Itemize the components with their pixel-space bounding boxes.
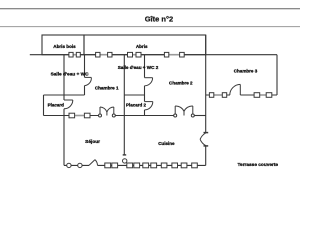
left long wall — [63, 55, 65, 100]
chambre3 bottom wall — [206, 94, 230, 96]
window W3 (bottom wall) — [143, 163, 149, 168]
svg-text:Salle d'eau + WC: Salle d'eau + WC — [51, 71, 90, 77]
header rule top — [0, 8, 300, 10]
svg-text:Séjour: Séjour — [85, 139, 100, 145]
wall placard1 top / salle d'eau bottom — [44, 94, 85, 96]
windows: top wall — [69, 52, 184, 57]
header rule bottom — [0, 26, 300, 28]
window mid wall — [69, 113, 90, 118]
windows chambre3 bottom wall — [209, 93, 271, 98]
window W4 (bottom wall) — [161, 163, 167, 168]
svg-text:Placard 2: Placard 2 — [126, 103, 147, 108]
svg-text:Chambre 2: Chambre 2 — [169, 80, 193, 85]
window A (top wall) — [73, 54, 76, 56]
window W5 (bottom wall) — [181, 163, 187, 168]
svg-text:Placard: Placard — [48, 103, 65, 108]
door chambre1 — [85, 77, 92, 85]
divider door circle — [123, 159, 127, 163]
chambre3 right wall — [276, 55, 278, 95]
double door 2 (cuisine-chambre2) — [174, 106, 195, 117]
abris bois box — [42, 35, 84, 55]
window chambre3 left — [214, 94, 223, 96]
window W2 (bottom wall) — [127, 163, 133, 168]
window W1 (bottom wall) — [105, 163, 111, 168]
placard1 left wall — [43, 95, 45, 116]
svg-text:Abris bois: Abris bois — [53, 44, 76, 49]
svg-text:Cuisine: Cuisine — [158, 141, 175, 146]
svg-text:Chambre 3: Chambre 3 — [234, 69, 258, 74]
top wall — [30, 54, 277, 56]
window B (top wall) — [100, 54, 108, 56]
mid wall — [44, 115, 101, 117]
windows bottom wall — [105, 163, 198, 168]
bottom wall — [64, 164, 89, 166]
svg-text:Abris: Abris — [136, 44, 148, 49]
window C (top wall) — [133, 54, 137, 56]
door salle d'eau 2 — [145, 78, 153, 86]
door placard1 — [64, 100, 73, 109]
wall placard2 top — [124, 94, 144, 96]
window chambre3 right — [260, 94, 267, 96]
door placard2 — [145, 102, 153, 110]
svg-text:Chambre 1: Chambre 1 — [95, 86, 119, 91]
building right wall — [205, 35, 207, 133]
salle d'eau right wall — [84, 55, 86, 78]
abris box — [84, 35, 206, 55]
door chambre3 — [230, 84, 241, 95]
svg-text:Salle d'eau + WC 2: Salle d'eau + WC 2 — [118, 65, 159, 70]
svg-text:Gîte n°2: Gîte n°2 — [145, 14, 173, 23]
door cuisine right wall (folding) — [200, 133, 208, 146]
double door 1 (sejour-chambre1) — [99, 107, 116, 117]
salle d'eau 2 right wall — [144, 55, 146, 78]
window D (top wall) — [169, 54, 180, 56]
bottom wall hinge circles — [67, 163, 82, 167]
svg-text:Terrasse couverte: Terrasse couverte — [238, 162, 279, 168]
door bottom wall sejour — [89, 160, 98, 166]
chambre1 right wall / sejour-cuisine divider — [123, 55, 125, 156]
